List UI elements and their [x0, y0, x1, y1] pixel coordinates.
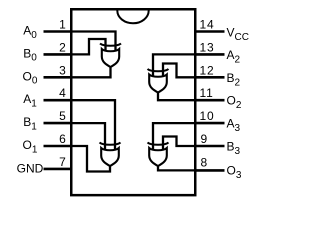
svg-text:O1: O1	[23, 138, 38, 155]
pin 12 wire (B2)	[194, 76, 225, 79]
wire net O0 from gate U1a output	[71, 65, 111, 77]
svg-text:VCC: VCC	[227, 26, 249, 44]
pin 2 wire (B0)	[44, 53, 73, 56]
svg-text:9: 9	[201, 132, 208, 146]
svg-text:1: 1	[59, 18, 66, 32]
pin 11 wire (O2)	[194, 99, 225, 102]
svg-text:O0: O0	[23, 69, 38, 86]
XOR gate U1d input arc	[148, 143, 169, 145]
pin 5 wire (B1)	[44, 122, 73, 125]
pin 7 wire (GND)	[44, 168, 73, 171]
XOR gate U1d body	[149, 148, 167, 166]
XOR gate U1c input arc	[148, 69, 169, 71]
XOR gate U1c body	[149, 75, 167, 93]
wire net O2 from gate U1c output	[158, 91, 195, 101]
svg-text:A0: A0	[23, 24, 37, 41]
svg-text:B0: B0	[23, 46, 37, 63]
svg-text:10: 10	[200, 109, 215, 123]
pin 3 wire (O0)	[44, 76, 73, 79]
svg-text:14: 14	[200, 18, 215, 32]
pin 1 wire (A0)	[44, 30, 73, 33]
svg-text:A1: A1	[23, 92, 37, 109]
svg-text:GND: GND	[17, 161, 44, 175]
svg-text:O2: O2	[227, 94, 242, 112]
svg-text:12: 12	[200, 63, 215, 77]
svg-text:A3: A3	[227, 117, 241, 135]
svg-text:B2: B2	[227, 71, 241, 89]
pin 13 wire (A2)	[194, 53, 225, 56]
pin 10 wire (A3)	[194, 122, 225, 125]
pin 14 wire (VCC)	[194, 30, 225, 33]
svg-text:11: 11	[200, 86, 214, 100]
wire net B1 to gate U1b left input	[71, 123, 105, 151]
XOR gate U1b input arc	[100, 143, 121, 145]
svg-text:B1: B1	[23, 115, 37, 132]
XOR gate U1b body	[101, 148, 119, 166]
wire net A1 to gate U1b right input	[71, 100, 115, 151]
wire net B3 to gate U1d right input	[163, 137, 195, 152]
svg-text:5: 5	[59, 109, 66, 123]
pin 8 wire (O3)	[194, 169, 225, 172]
wire net O3 from gate U1d output	[158, 164, 195, 170]
IC body U1 (DIP-14 outline)	[71, 9, 195, 195]
wire net B0 to gate U1a left input	[71, 39, 106, 54]
svg-text:7: 7	[59, 155, 66, 169]
svg-text:3: 3	[59, 63, 66, 77]
XOR gate U1a body	[102, 49, 119, 67]
pin 4 wire (A1)	[44, 99, 73, 102]
wire net B2 to gate U1c right input	[163, 64, 195, 79]
svg-text:2: 2	[59, 40, 66, 54]
svg-text:B3: B3	[227, 140, 241, 158]
wire net A2 to gate U1c left input	[153, 54, 195, 78]
svg-text:O3: O3	[227, 163, 242, 181]
wire net A0 to gate U1a right input	[71, 32, 116, 53]
pin 9 wire (B3)	[194, 145, 225, 148]
svg-text:4: 4	[59, 86, 66, 100]
wire net A3 to gate U1d left input	[153, 123, 195, 151]
svg-text:6: 6	[59, 132, 66, 146]
svg-text:8: 8	[201, 156, 208, 170]
notch (pin-1 orientation semicircle)	[117, 11, 148, 24]
svg-text:13: 13	[200, 40, 215, 54]
svg-text:A2: A2	[227, 48, 241, 66]
XOR gate U1a input arc	[100, 44, 121, 46]
pin 6 wire (O1)	[44, 145, 73, 148]
wire net O1 from gate U1b output	[71, 146, 110, 172]
